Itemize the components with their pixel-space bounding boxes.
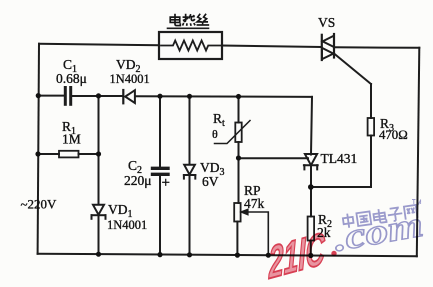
svg-text:1N4001: 1N4001 xyxy=(110,72,150,86)
svg-text:1N4001: 1N4001 xyxy=(107,218,147,232)
svg-text:220μ: 220μ xyxy=(124,173,152,188)
svg-text:.com: .com xyxy=(330,204,426,259)
svg-text:+: + xyxy=(162,175,170,191)
svg-text:0.68μ: 0.68μ xyxy=(56,71,87,86)
svg-text:21IC: 21IC xyxy=(268,224,326,287)
svg-text:1M: 1M xyxy=(62,132,81,147)
svg-text:θ: θ xyxy=(212,127,218,141)
svg-text:6V: 6V xyxy=(202,174,219,189)
svg-text:~220V: ~220V xyxy=(21,197,58,212)
svg-text:TL431: TL431 xyxy=(321,151,358,166)
svg-text:47k: 47k xyxy=(244,196,265,211)
svg-text:VS: VS xyxy=(318,15,335,30)
svg-text:470Ω: 470Ω xyxy=(379,128,408,142)
